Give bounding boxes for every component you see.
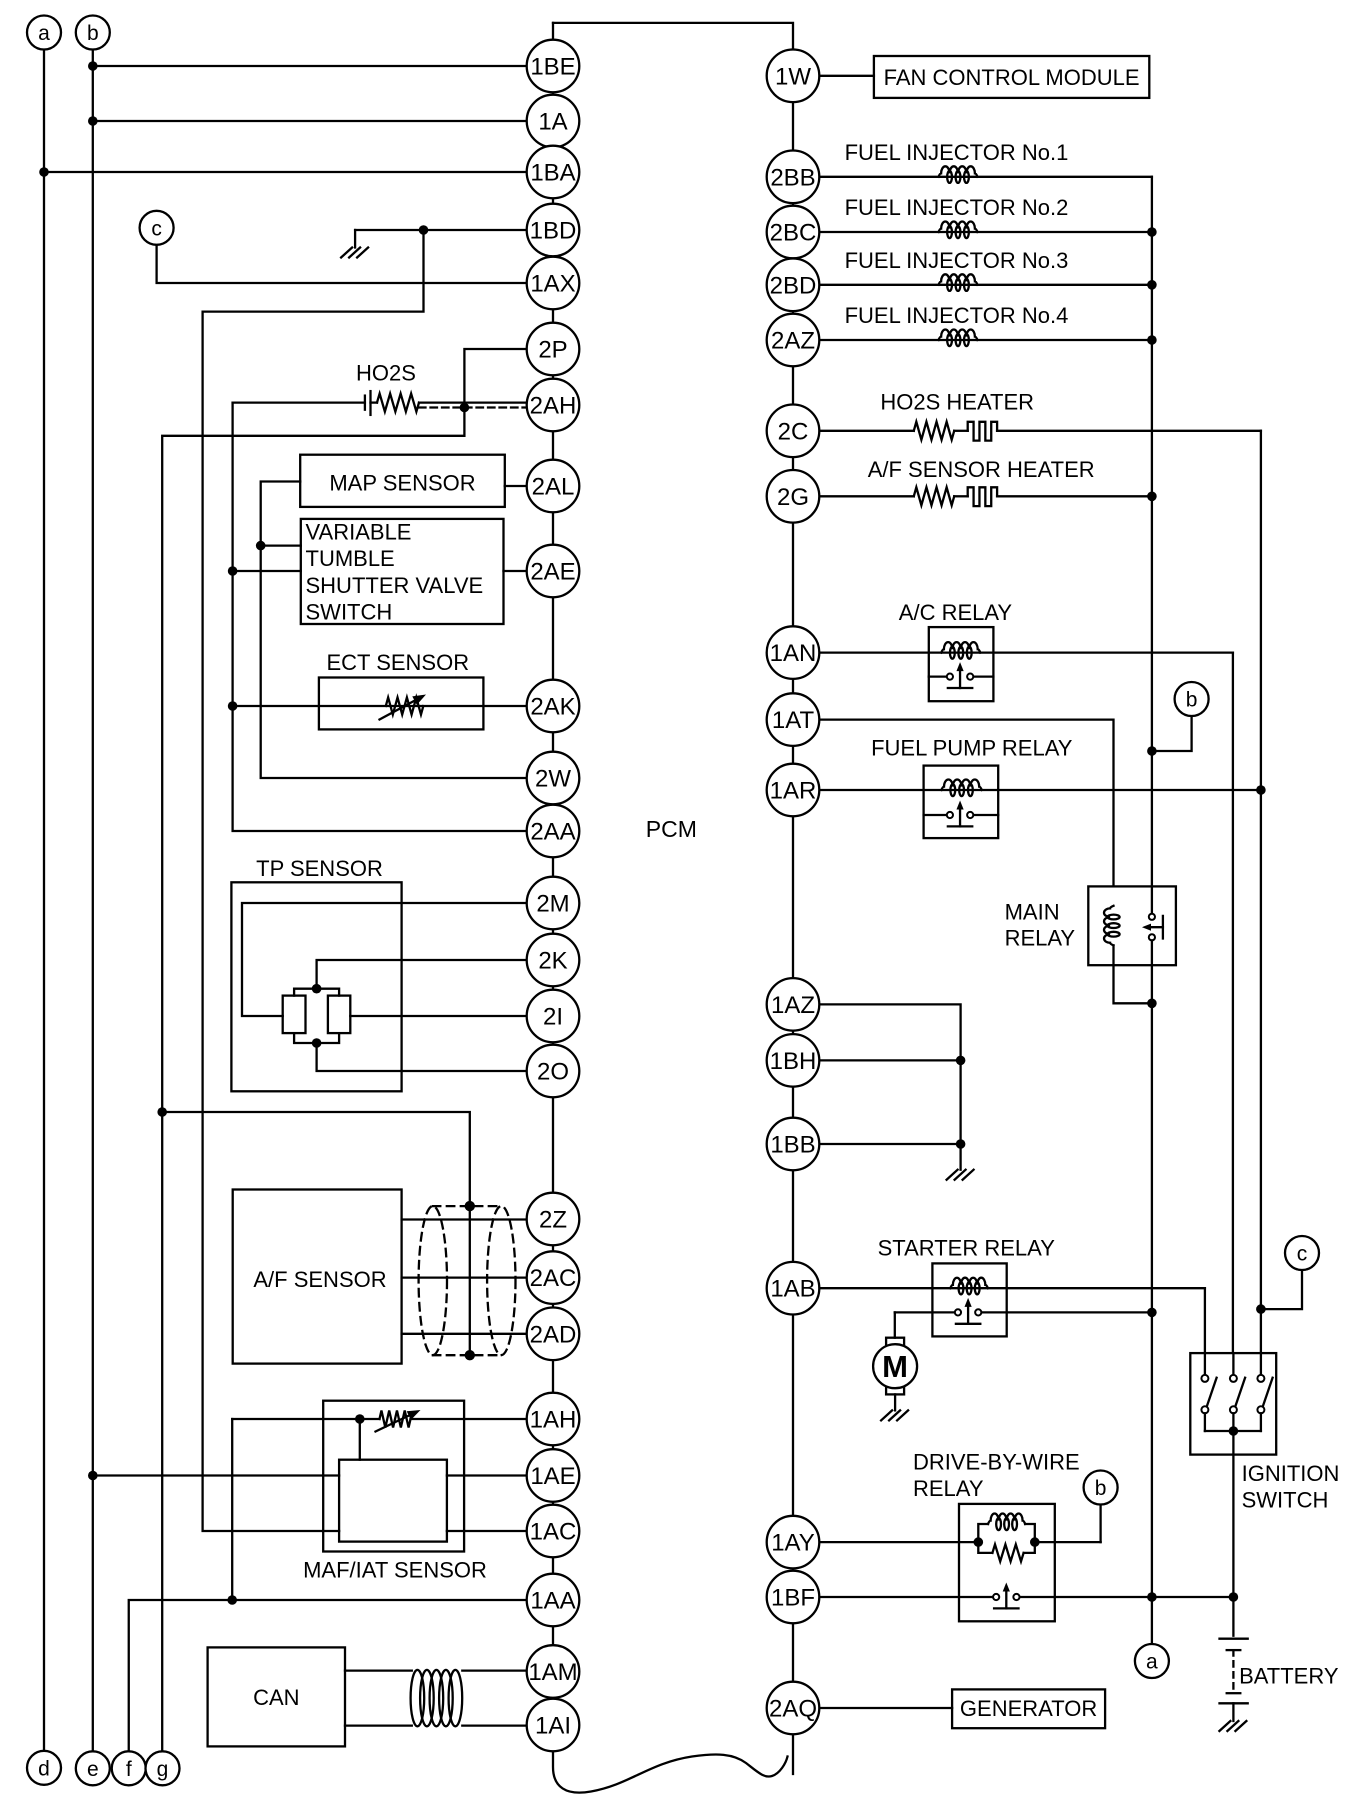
svg-text:SWITCH: SWITCH (306, 600, 393, 625)
junction dot 1AR at right drop (1256, 785, 1266, 795)
node 2I (527, 990, 580, 1043)
svg-text:f: f (126, 1758, 132, 1781)
relay coil of A/C relay (941, 642, 980, 653)
junction dot g-line at A/F shield branch (157, 1107, 167, 1117)
wire node c to 1AR drop (1261, 1270, 1302, 1309)
svg-text:MAF/IAT SENSOR: MAF/IAT SENSOR (303, 1558, 487, 1583)
wire 1BD junction to 1AC via MAF/IAT sensor (203, 230, 424, 1531)
node 1W (767, 50, 820, 103)
node 2AD (527, 1308, 580, 1361)
variable resistor element of MAF sensor (380, 1411, 411, 1428)
ground G1 on 1BD wire (341, 248, 368, 258)
svg-text:MAP SENSOR: MAP SENSOR (329, 471, 475, 496)
svg-text:2G: 2G (777, 484, 809, 511)
relay contact of DRIVE-BY-WIRE RELAY (820, 1596, 994, 1598)
svg-text:A/F SENSOR: A/F SENSOR (253, 1267, 386, 1292)
node 1BE (527, 40, 580, 93)
wire 2I to TP right (350, 1015, 526, 1017)
node 2AQ (767, 1682, 820, 1735)
svg-text:STARTER RELAY: STARTER RELAY (878, 1236, 1056, 1261)
wire MAIN RELAY coil return to bus (1114, 945, 1152, 1003)
wire 2C HO2S heater row (820, 430, 914, 432)
wire injector bus down right (1151, 177, 1153, 914)
svg-text:1AI: 1AI (535, 1713, 571, 1740)
svg-text:1BB: 1BB (770, 1132, 815, 1159)
svg-text:VARIABLE: VARIABLE (306, 520, 412, 545)
relay coil of FUEL PUMP RELAY (941, 780, 981, 791)
svg-text:b: b (87, 22, 99, 45)
ground G4 below battery (1219, 1721, 1246, 1731)
svg-text:d: d (38, 1757, 50, 1780)
svg-text:2AL: 2AL (532, 474, 575, 501)
component TP SENSOR box (231, 882, 401, 1091)
svg-text:1AC: 1AC (530, 1519, 577, 1546)
wire CAN to 1AI (345, 1724, 412, 1726)
component GENERATOR box (952, 1689, 1105, 1728)
inductor coil of FUEL INJECTOR No.3 (939, 274, 978, 285)
svg-text:2M: 2M (536, 891, 569, 918)
component ECT SENSOR box (319, 678, 484, 730)
svg-text:IGNITION: IGNITION (1242, 1461, 1340, 1486)
junction dot MAF resistor tap (355, 1414, 365, 1424)
junction dot shield top (465, 1201, 475, 1211)
node 2G (767, 470, 820, 523)
svg-text:2I: 2I (543, 1004, 563, 1031)
svg-text:1AA: 1AA (530, 1588, 575, 1615)
svg-text:SHUTTER VALVE: SHUTTER VALVE (306, 573, 484, 598)
wire main bus mid (1151, 940, 1153, 1644)
junction dot battery drop at 1BF wire (1229, 1592, 1239, 1602)
wire A/F sensor to 2AC (402, 1276, 527, 1278)
junction dot TP bottom rail (312, 1038, 322, 1048)
svg-text:2BB: 2BB (770, 164, 815, 191)
wire circle-a drop to circle-d with 1BA tap (43, 50, 45, 1751)
svg-text:1AN: 1AN (770, 640, 817, 667)
svg-text:1AY: 1AY (771, 1530, 815, 1557)
junction dot bus at 2G heater (1147, 492, 1157, 502)
junction dot b-line at 1AE wire (88, 1471, 98, 1481)
node 1AE (527, 1449, 580, 1502)
svg-text:a: a (1146, 1651, 1158, 1674)
svg-text:1A: 1A (538, 109, 567, 136)
svg-text:BATTERY: BATTERY (1239, 1664, 1339, 1689)
svg-text:A/C RELAY: A/C RELAY (899, 600, 1013, 625)
junction dot shield wire at HO2S shield line (460, 403, 470, 413)
svg-text:DRIVE-BY-WIRE: DRIVE-BY-WIRE (913, 1450, 1080, 1475)
svg-text:1AX: 1AX (530, 271, 575, 298)
resistor of A/F sensor heater (914, 487, 954, 505)
wire node c to 1AX (157, 245, 527, 283)
junction dot DBW relay right (1030, 1537, 1040, 1547)
node 1AI (527, 1699, 580, 1752)
junction dot injector bus at No.2 (1147, 227, 1157, 237)
capacitor element of HO2S sensor (364, 396, 366, 410)
svg-text:g: g (157, 1758, 169, 1781)
junction dot 1AR-drop at node-c link (1256, 1304, 1266, 1314)
switch poles of IGNITION SWITCH (1204, 1353, 1206, 1375)
junction dot ignition switch common (1229, 1426, 1239, 1436)
svg-text:2Z: 2Z (539, 1207, 567, 1234)
node 1AH (527, 1393, 580, 1446)
wire PCM left connector column spine (552, 23, 554, 1751)
node 2K (527, 934, 580, 987)
svg-text:ECT SENSOR: ECT SENSOR (326, 650, 469, 675)
svg-text:HO2S: HO2S (356, 361, 416, 386)
wire 1A to node b (93, 120, 527, 122)
svg-text:c: c (1297, 1243, 1308, 1266)
junction dot 1BD wire (419, 225, 429, 235)
node c left (140, 211, 174, 245)
svg-text:FUEL INJECTOR No.3: FUEL INJECTOR No.3 (845, 248, 1069, 273)
node b at DBW relay (1084, 1471, 1118, 1505)
junction dot DBW relay left (974, 1537, 984, 1547)
node 1AY (767, 1516, 820, 1569)
node 1AA (527, 1574, 580, 1627)
node 2M (527, 877, 580, 930)
junction dot bus at node-b link (1147, 746, 1157, 756)
wire HO2S element to 2AH (233, 401, 365, 403)
svg-text:1AB: 1AB (770, 1276, 815, 1303)
wire 1BD to ground and branch (355, 229, 527, 231)
wire VTSV pin2 to HO2S-drop (233, 570, 301, 572)
wire top link 1BE to 1W (553, 23, 793, 49)
motor M of starter (886, 1338, 904, 1346)
cable shield of A/F sensor wires (419, 1206, 516, 1355)
wire 1AB through STARTER RELAY coil to ignition pole1 (820, 1287, 1205, 1289)
svg-text:1BA: 1BA (530, 160, 575, 187)
twisted-pair choke on CAN wires (411, 1670, 463, 1726)
resistor element of HO2S sensor (377, 394, 419, 412)
junction dot MAP-drop at VTSV wire (256, 541, 266, 551)
node 2AL (527, 460, 580, 513)
component IGNITION SWITCH box (1190, 1353, 1276, 1455)
svg-text:RELAY: RELAY (913, 1476, 984, 1501)
svg-text:2BD: 2BD (770, 272, 817, 299)
svg-text:2BC: 2BC (770, 220, 817, 247)
wire 2BB fuel injector row (820, 176, 1152, 178)
node 1A (527, 95, 580, 148)
svg-text:b: b (1095, 1477, 1107, 1500)
node 1BD (527, 204, 580, 257)
component MAF/IAT sensor inner box (339, 1460, 447, 1542)
node c right (1285, 1236, 1319, 1270)
wire 1AH through MAF/IAT sensor (231, 1419, 233, 1600)
node f bottom (112, 1751, 146, 1785)
svg-text:2O: 2O (537, 1059, 569, 1086)
svg-text:TUMBLE: TUMBLE (306, 546, 395, 571)
thermistor element of ECT sensor (386, 698, 424, 715)
wire 2BD fuel injector row (820, 284, 1152, 286)
svg-text:2AE: 2AE (530, 559, 575, 586)
node 1AZ (767, 978, 820, 1031)
svg-text:2AC: 2AC (530, 1265, 577, 1292)
relay coil of STARTER RELAY (950, 1278, 988, 1288)
node 2AZ (767, 314, 820, 367)
component MAF/IAT sensor outer box (323, 1401, 464, 1552)
node 2BB (767, 151, 820, 204)
node g bottom (146, 1751, 180, 1785)
svg-text:1AH: 1AH (530, 1407, 577, 1434)
svg-text:a: a (38, 22, 50, 45)
junction dot b-line at 1A wire (88, 116, 98, 126)
node 2AC (527, 1251, 580, 1304)
wire PCM right connector column spine (792, 49, 794, 1774)
node 1AM (527, 1645, 580, 1698)
inductor coil of FUEL INJECTOR No.4 (939, 329, 978, 340)
svg-text:SWITCH: SWITCH (1242, 1488, 1329, 1513)
wire MAP SENSOR to 2AL (505, 485, 527, 487)
relay contact of A/C relay (929, 675, 947, 677)
svg-text:2K: 2K (538, 948, 567, 975)
svg-text:2AD: 2AD (530, 1321, 577, 1348)
node 2BD (767, 259, 820, 312)
wire bottom cut squiggle 1AI to 2AQ (553, 1751, 788, 1792)
node 2O (527, 1045, 580, 1098)
svg-text:RELAY: RELAY (1005, 926, 1076, 951)
component DRIVE-BY-WIRE RELAY box (959, 1504, 1055, 1621)
svg-text:FAN CONTROL MODULE: FAN CONTROL MODULE (884, 65, 1140, 90)
wire circle-b drop to circle-e with 1BE/1A/1AE taps (92, 50, 94, 1752)
wire CAN to 1AM (345, 1669, 412, 1671)
battery symbol (1220, 1638, 1248, 1640)
wire 1AN through A/C relay to ignition pole2 (820, 651, 1233, 653)
junction dot HO2S-drop at ECT wire (228, 701, 238, 711)
junction dot HO2S-drop at VTSV wire (228, 566, 238, 576)
node d bottom (27, 1751, 61, 1785)
relay contact of FUEL PUMP RELAY (924, 814, 947, 816)
node 1AT (767, 693, 820, 746)
node 2BC (767, 206, 820, 259)
component FUEL PUMP RELAY box (924, 766, 999, 839)
node 1BA (527, 146, 580, 199)
svg-text:FUEL INJECTOR No.4: FUEL INJECTOR No.4 (845, 303, 1069, 328)
relay contact of STARTER RELAY (895, 1311, 955, 1313)
component A/F SENSOR box (233, 1190, 402, 1364)
node 2Z (527, 1193, 580, 1246)
svg-text:2AK: 2AK (530, 694, 575, 721)
junction dot bus at starter contact (1147, 1308, 1157, 1318)
svg-text:M: M (882, 1349, 908, 1384)
inductor coil of FUEL INJECTOR No.1 (939, 166, 978, 177)
svg-text:1BD: 1BD (530, 218, 577, 245)
junction dot shield bottom (465, 1350, 475, 1360)
relay contact of MAIN RELAY (1149, 914, 1155, 920)
wire 2P to cable shields (162, 349, 527, 1751)
node 1AR (767, 764, 820, 817)
node 2AK (527, 680, 580, 733)
relay coil of MAIN RELAY (1104, 906, 1114, 946)
junction dot ground drop at 1BB (956, 1139, 966, 1149)
node 2AH (527, 379, 580, 432)
svg-text:2C: 2C (778, 418, 809, 445)
junction dot TP top rail (312, 984, 322, 994)
svg-text:PCM: PCM (646, 816, 697, 842)
wire 1BE to node b (93, 65, 527, 67)
node 1BH (767, 1034, 820, 1087)
ground G3 below starter motor (881, 1410, 908, 1420)
node 1BF (767, 1571, 820, 1624)
svg-text:c: c (151, 217, 162, 240)
svg-text:CAN: CAN (253, 1685, 299, 1710)
wire MAF inner box to 1AC (447, 1530, 527, 1532)
node 1AN (767, 626, 820, 679)
wire 1AA to circle-f drop (129, 1600, 527, 1751)
svg-text:2AA: 2AA (530, 819, 575, 846)
svg-text:2AZ: 2AZ (771, 328, 815, 355)
wire 1AT to MAIN RELAY coil (820, 720, 1114, 887)
component STARTER RELAY box (932, 1263, 1006, 1336)
wire ECT sensor to 2AK (233, 705, 527, 707)
wire 1BH to ground drop (820, 1059, 961, 1061)
node 1AC (527, 1505, 580, 1558)
resistor branch of DRIVE-BY-WIRE RELAY (978, 1542, 992, 1553)
wire 1AY through DRIVE-BY-WIRE RELAY to node b (820, 1541, 979, 1543)
component CAN box (208, 1647, 345, 1746)
wire 1BB to ground drop (820, 1143, 961, 1145)
relay coil branch of DRIVE-BY-WIRE RELAY (978, 1524, 988, 1542)
wire starter contact to motor (894, 1312, 896, 1337)
wire 2AZ fuel injector row (820, 339, 1152, 341)
wire shield branch to A/F sensor shield (162, 1112, 470, 1355)
junction dot injector bus at No.3 (1147, 280, 1157, 290)
wire 1W to FAN CONTROL MODULE (820, 75, 874, 77)
svg-text:1W: 1W (775, 63, 811, 90)
wire A/F sensor to 2AD (402, 1333, 527, 1335)
wire MAP SENSOR to 2W drop (261, 482, 527, 779)
wire 2AQ to GENERATOR (820, 1707, 952, 1709)
node 1AX (527, 257, 580, 310)
junction dot bus at 1BF wire (1147, 1592, 1157, 1602)
svg-text:b: b (1186, 689, 1198, 712)
wire HO2S drop to VTSV / ECT / 2AA (233, 403, 527, 831)
junction dot b-line at 1BE wire (88, 61, 98, 71)
heater element of A/F sensor heater (968, 487, 997, 506)
junction dot bus at MAIN RELAY return (1147, 999, 1157, 1009)
node e bottom (76, 1751, 110, 1785)
svg-text:MAIN: MAIN (1005, 900, 1060, 925)
wire 2G A/F sensor heater row (820, 495, 914, 497)
junction dot 1AA wire at MAF drop (227, 1595, 237, 1605)
node 2C (767, 405, 820, 458)
wire 1AR through FUEL PUMP RELAY (820, 789, 1261, 791)
wire 2K to TP top rail (317, 960, 527, 989)
inductor coil of FUEL INJECTOR No.2 (939, 221, 978, 232)
wire 1AE to MAF inner box (93, 1474, 339, 1476)
svg-text:2AQ: 2AQ (769, 1696, 817, 1723)
svg-text:1BH: 1BH (770, 1048, 817, 1075)
svg-text:e: e (87, 1758, 99, 1781)
heater element of HO2S heater (968, 422, 997, 441)
component FAN CONTROL MODULE box (874, 56, 1149, 98)
node 2P (527, 323, 580, 376)
svg-text:FUEL INJECTOR No.1: FUEL INJECTOR No.1 (845, 140, 1069, 165)
svg-text:2AH: 2AH (530, 393, 577, 420)
svg-text:HO2S HEATER: HO2S HEATER (880, 390, 1034, 415)
wire 1AR drop to ignition pole3 (1260, 431, 1262, 1371)
resistor of HO2S heater (914, 422, 954, 440)
wire ignition pole2 drop (1232, 653, 1234, 1371)
wire 1AZ to ground drop (820, 1004, 961, 1169)
node 1BB (767, 1118, 820, 1171)
node a right (1135, 1644, 1169, 1678)
svg-text:A/F SENSOR HEATER: A/F SENSOR HEATER (868, 457, 1095, 482)
component VARIABLE TUMBLE SHUTTER VALVE SWITCH box (301, 519, 504, 624)
node a top-left (27, 16, 61, 50)
wire MAF tap to inner box (359, 1419, 361, 1460)
svg-text:GENERATOR: GENERATOR (960, 1696, 1097, 1721)
svg-text:2W: 2W (535, 766, 571, 793)
wire VTSV to 2AE (504, 570, 527, 572)
node 2AE (527, 545, 580, 598)
node b right (1175, 682, 1209, 716)
node 1AB (767, 1262, 820, 1315)
wire 2M to TP wiper (242, 903, 527, 1016)
wire MAF inner box to 1AE (447, 1474, 527, 1476)
node b top-left (76, 16, 110, 50)
component MAP SENSOR box (300, 455, 505, 507)
component A/C RELAY box (929, 627, 994, 701)
junction dot ground drop at 1BH (956, 1056, 966, 1066)
dashed shield line HO2S to 2AH (419, 406, 527, 408)
svg-text:1AR: 1AR (770, 778, 817, 805)
junction dot a-line at 1BA wire (39, 167, 49, 177)
svg-text:1AT: 1AT (772, 707, 815, 734)
junction dot injector bus at No.4 (1147, 335, 1157, 345)
wire VTSV pin1 to MAP-drop (261, 544, 301, 546)
node 2W (527, 752, 580, 805)
wire A/F sensor to 2Z (402, 1218, 527, 1220)
svg-text:1BE: 1BE (530, 54, 575, 81)
svg-text:1AM: 1AM (528, 1659, 577, 1686)
svg-text:1BF: 1BF (771, 1585, 815, 1612)
wire node b to main bus (1152, 716, 1192, 751)
svg-text:FUEL PUMP RELAY: FUEL PUMP RELAY (871, 736, 1073, 761)
ground G2 below 1BB (947, 1170, 974, 1180)
wire 2BC fuel injector row (820, 231, 1152, 233)
wire 1BA to node a (44, 171, 527, 173)
component MAIN RELAY box (1088, 886, 1176, 965)
node 2AA (527, 805, 580, 858)
svg-text:1AE: 1AE (530, 1463, 575, 1490)
potentiometer element of TP sensor (294, 989, 339, 996)
svg-text:1AZ: 1AZ (771, 992, 815, 1019)
wire 2O to TP bottom rail (317, 1043, 527, 1071)
svg-text:2P: 2P (538, 337, 567, 364)
svg-text:TP SENSOR: TP SENSOR (256, 856, 383, 881)
svg-text:FUEL INJECTOR No.2: FUEL INJECTOR No.2 (845, 195, 1069, 220)
wire ignition common to battery (1232, 1431, 1234, 1636)
